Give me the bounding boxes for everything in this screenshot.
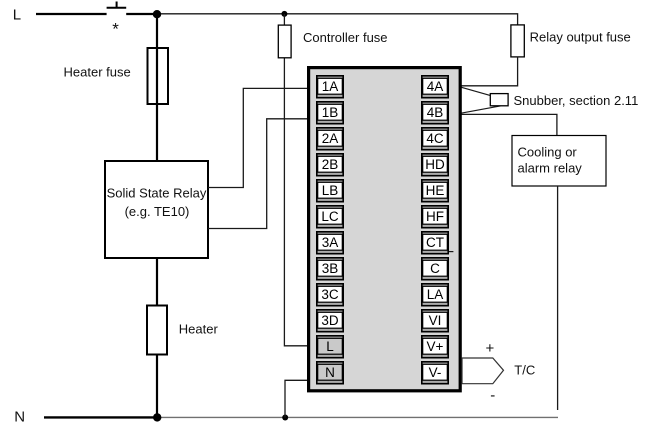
- svg-text:3C: 3C: [321, 287, 339, 302]
- controller terminal block: [309, 68, 461, 391]
- wire relay fuse to terminal 4A: [461, 57, 518, 86]
- wire heater branch down (thick): [156, 14, 158, 161]
- terminal LA: [422, 284, 448, 306]
- terminal N: [317, 362, 343, 384]
- svg-text:3D: 3D: [321, 313, 339, 328]
- wire cooling relay to N (open end): [557, 186, 559, 410]
- node junction dot N branch: [282, 415, 288, 421]
- svg-text:2B: 2B: [322, 157, 339, 172]
- svg-text:Solid State Relay: Solid State Relay: [107, 186, 207, 201]
- svg-text:3A: 3A: [322, 235, 339, 250]
- terminal HF: [422, 206, 448, 228]
- wire CT tick: [449, 251, 453, 253]
- switch S1 contact bar: [107, 2, 127, 8]
- wire snubber upper lead: [461, 87, 491, 95]
- node junction dot heater/N: [153, 413, 161, 421]
- terminal LC: [317, 206, 343, 228]
- wire controller fuse branch to terminal L: [284, 14, 308, 346]
- terminal V+: [422, 336, 448, 358]
- terminal 3A: [317, 232, 343, 254]
- svg-text:L: L: [326, 339, 334, 354]
- terminal 1A: [317, 76, 343, 98]
- terminal 4A: [422, 76, 448, 98]
- wire terminal 4B to cooling relay: [461, 114, 557, 135]
- svg-text:4B: 4B: [427, 105, 444, 120]
- svg-text:1A: 1A: [322, 79, 339, 94]
- terminal 1B: [317, 102, 343, 124]
- svg-text:3B: 3B: [322, 261, 339, 276]
- wire N branch to terminal N: [285, 380, 308, 417]
- heater R1: [147, 306, 167, 355]
- svg-text:+: +: [486, 340, 495, 357]
- svg-text:VI: VI: [429, 313, 442, 328]
- wire N feed (thick): [44, 416, 157, 418]
- terminal 2B: [317, 154, 343, 176]
- wire SSR output to terminal 1A: [208, 88, 308, 187]
- svg-text:V-: V-: [429, 365, 442, 380]
- svg-text:Relay output fuse: Relay output fuse: [530, 30, 631, 45]
- svg-text:Heater fuse: Heater fuse: [64, 64, 131, 79]
- svg-text:Cooling or: Cooling or: [518, 145, 578, 160]
- svg-text:CT: CT: [426, 235, 444, 250]
- svg-text:1B: 1B: [322, 105, 339, 120]
- svg-text:L: L: [13, 6, 21, 23]
- relay output fuse: [511, 25, 524, 57]
- terminal C: [422, 258, 448, 280]
- svg-text:T/C: T/C: [514, 362, 535, 377]
- svg-text:(e.g. TE10): (e.g. TE10): [125, 204, 190, 219]
- terminal VI: [422, 310, 448, 332]
- terminal 3D: [317, 310, 343, 332]
- svg-text:HE: HE: [426, 183, 445, 198]
- svg-text:V+: V+: [427, 339, 444, 354]
- snubber: [490, 94, 508, 106]
- wire SSR output to terminal 1B: [208, 119, 308, 229]
- svg-text:*: *: [112, 20, 119, 39]
- svg-text:HD: HD: [425, 157, 445, 172]
- terminal 2A: [317, 128, 343, 150]
- terminal CT: [422, 232, 448, 254]
- svg-text:Snubber, section 2.11: Snubber, section 2.11: [514, 93, 639, 108]
- wire L feed (thick): [36, 13, 107, 15]
- terminal 3B: [317, 258, 343, 280]
- svg-text:HF: HF: [426, 209, 444, 224]
- terminal V-: [422, 362, 448, 384]
- svg-text:Heater: Heater: [179, 322, 219, 337]
- controller fuse: [278, 25, 291, 58]
- svg-text:N: N: [325, 365, 335, 380]
- svg-text:LB: LB: [322, 183, 339, 198]
- wire snubber lower lead: [461, 106, 501, 113]
- cooling or alarm relay K1: [512, 136, 606, 187]
- wire N bus right (grey): [157, 416, 558, 418]
- terminal HE: [422, 180, 448, 202]
- svg-text:2A: 2A: [322, 131, 339, 146]
- svg-text:N: N: [14, 409, 25, 426]
- svg-text:LC: LC: [321, 209, 339, 224]
- svg-text:4C: 4C: [426, 131, 444, 146]
- node junction dot heater branch: [153, 10, 161, 18]
- terminal 4C: [422, 128, 448, 150]
- svg-text:4A: 4A: [427, 79, 444, 94]
- node junction dot controller fuse branch: [281, 11, 287, 17]
- terminal L: [317, 336, 343, 358]
- svg-text:alarm relay: alarm relay: [518, 161, 583, 176]
- svg-text:-: -: [490, 387, 495, 404]
- svg-text:LA: LA: [427, 287, 444, 302]
- terminal 4B: [422, 102, 448, 124]
- wire SSR to heater (thick): [156, 258, 158, 417]
- wire L bus to relay output fuse: [157, 14, 518, 25]
- svg-text:Controller fuse: Controller fuse: [303, 30, 388, 45]
- solid state relay U1: [105, 161, 208, 258]
- svg-text:C: C: [430, 261, 440, 276]
- terminal LB: [317, 180, 343, 202]
- terminal 3C: [317, 284, 343, 306]
- wire switch to junction (thick): [126, 13, 158, 15]
- thermocouple T/C plug: [462, 358, 504, 384]
- heater fuse: [148, 48, 169, 104]
- terminal HD: [422, 154, 448, 176]
